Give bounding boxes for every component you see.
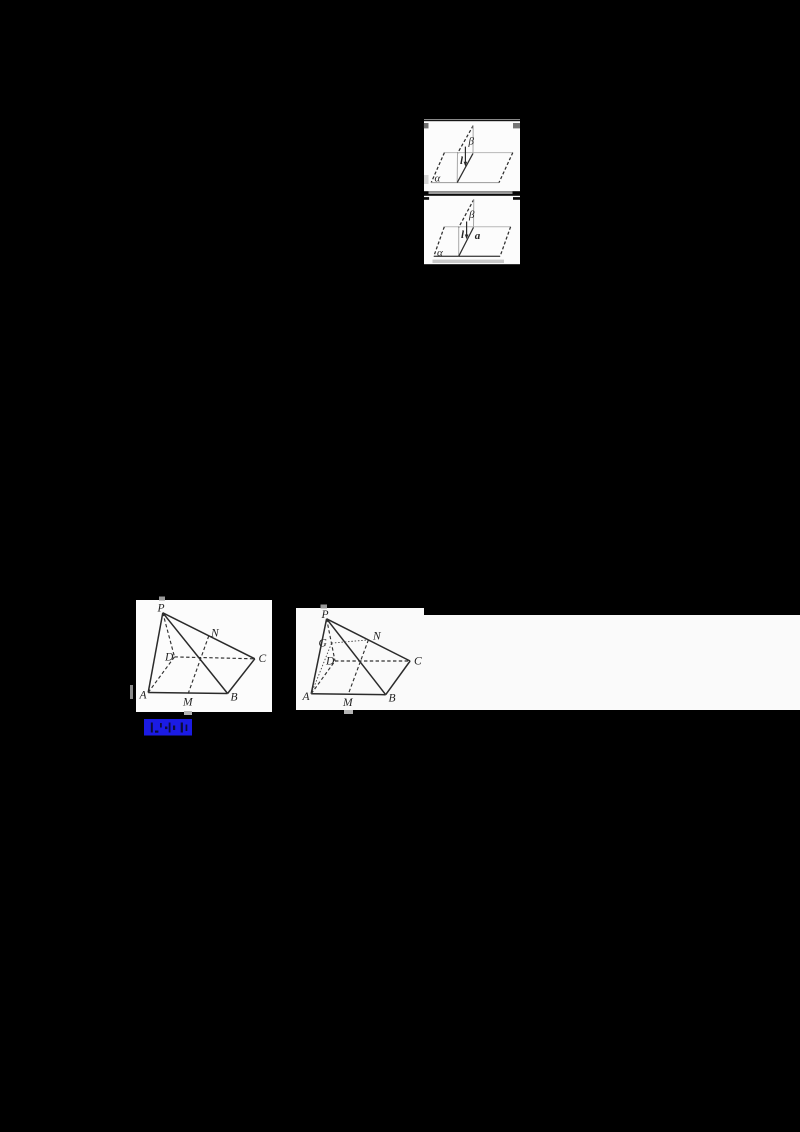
svg-text:B: B: [231, 692, 238, 704]
svg-text:a: a: [475, 230, 481, 242]
fig1 plane alpha bottom edge: [431, 182, 499, 184]
fig4 edge BC: [386, 661, 410, 695]
fig2 plane alpha right dashed edge: [500, 227, 511, 256]
fig1 plane alpha right dashed edge: [499, 153, 513, 183]
svg-text:P: P: [157, 603, 165, 615]
figure 2: planes alpha and beta with line a: [424, 196, 520, 264]
fig1 white box: [424, 119, 520, 192]
fig1 top-left gray corner square: [424, 123, 429, 128]
fig1 bottom bar black corners: [424, 191, 520, 194]
fig1 plane beta right vertical edge: [472, 126, 474, 154]
fig3 dashed PD: [163, 613, 175, 657]
fig1 top dark bar: [424, 120, 520, 122]
svg-text:M: M: [182, 697, 194, 709]
fig3 gray tick above box: [159, 597, 165, 601]
svg-text:β: β: [468, 209, 475, 221]
fig1 bottom bar gray center: [429, 191, 513, 194]
fig4 edge AB: [311, 693, 386, 696]
fig2 plane beta dashed upper-left edge: [459, 200, 474, 228]
fig4 edge PC: [327, 619, 411, 661]
fig3 edge PB: [163, 613, 228, 694]
fig3 gray smudge below box: [184, 711, 192, 715]
svg-text:A: A: [302, 691, 311, 703]
fig4 edge PB: [327, 619, 386, 695]
fig1 top-right gray corner square: [513, 123, 520, 128]
fig3 edge BC: [228, 659, 255, 694]
fig3 left gray smudge: [130, 685, 133, 699]
fig2 plane alpha bottom edge: [434, 255, 500, 257]
fig2 bottom gray strip: [433, 260, 505, 263]
svg-text:P: P: [321, 609, 329, 621]
fig2 top-left black corner: [424, 197, 429, 200]
fig3 edge PC: [163, 613, 255, 659]
svg-text:α: α: [437, 247, 443, 259]
svg-text:N: N: [372, 631, 382, 643]
fig1 plane beta dashed upper-left edge: [458, 126, 474, 154]
fig2 plane alpha top edge: [444, 226, 510, 228]
fig2 line l with down arrow: [466, 222, 468, 237]
fig1 line l with down arrow: [464, 147, 466, 164]
fig3 edge AB: [148, 693, 227, 694]
fig3 dashed AD: [148, 657, 174, 693]
dark glyph marks inside blue box: [151, 723, 153, 733]
fig1 plane beta front solid edge: [457, 153, 473, 182]
fig1 plane alpha top edge: [444, 152, 512, 154]
figure 4: pyramid P-ABC with D, G, M, N, plus wide white band: [296, 605, 800, 715]
svg-text:D: D: [325, 656, 335, 668]
fig4 dashed AD: [311, 661, 335, 694]
fig3 white box: [136, 600, 272, 712]
fig2 plane alpha left dashed edge: [434, 227, 445, 256]
fig4 gray tick above P: [321, 605, 328, 609]
fig1 plane alpha left dashed edge: [431, 153, 444, 183]
fig1 left gray smudge: [424, 175, 429, 184]
fig4 edge PA: [311, 619, 326, 694]
svg-text:G: G: [319, 638, 328, 650]
fig3 edge PA: [148, 613, 163, 693]
svg-text:M: M: [342, 697, 354, 709]
fig4 gray smudge below M: [344, 710, 353, 714]
fig2 top-right black corner: [513, 197, 520, 200]
fig2 plane beta front solid edge: [459, 227, 474, 256]
fig2 plane beta right vertical edge: [473, 200, 475, 228]
fig2 white box: [424, 196, 520, 264]
fig4 dashed DC: [335, 660, 410, 662]
blue highlighted label box: [144, 719, 192, 736]
svg-text:α: α: [435, 173, 441, 185]
white band to right edge: [424, 615, 800, 710]
svg-text:D: D: [164, 652, 174, 664]
fig4 dotted GN: [332, 640, 369, 643]
svg-text:A: A: [139, 690, 148, 702]
svg-text:C: C: [414, 656, 422, 668]
fig4 dashed PD through G: [327, 619, 335, 661]
blue box background: [144, 719, 192, 736]
figure 3: pyramid P-ABC with D, M, N: [130, 597, 272, 716]
fig3 dashed NM: [188, 636, 209, 694]
svg-text:N: N: [210, 628, 220, 640]
svg-text:β: β: [468, 136, 475, 148]
fig4 dotted AG: [311, 643, 331, 694]
fig2 plane beta left vertical edge: [458, 227, 460, 256]
fig3 dashed DC: [175, 657, 255, 659]
svg-text:C: C: [259, 653, 267, 665]
svg-text:B: B: [389, 693, 396, 705]
fig1 plane beta left vertical edge: [456, 153, 458, 182]
figure 1: planes alpha and beta intersecting in line l: [424, 119, 520, 196]
fig1 bottom full-width black line: [424, 194, 520, 196]
fig4 white box: [296, 608, 424, 710]
fig4 dashed NM: [348, 640, 368, 695]
